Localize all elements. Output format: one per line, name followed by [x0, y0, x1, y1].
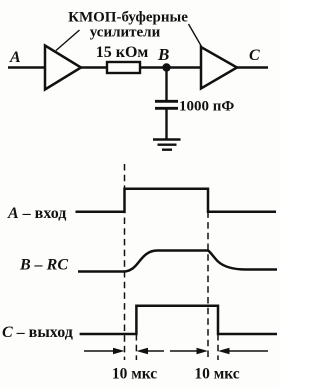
- svg-text:КМОП-буферные: КМОП-буферные: [68, 10, 188, 26]
- dimension arrow right pair (10 мкс): [170, 348, 268, 354]
- dashed timing line below C fall: [217, 334, 219, 360]
- waveform C output pulse: [80, 306, 277, 334]
- op-amp buffer U1: [45, 46, 81, 90]
- svg-text:C: C: [249, 47, 260, 64]
- svg-text:A – вход: A – вход: [7, 205, 66, 222]
- svg-text:1000 пФ: 1000 пФ: [179, 99, 234, 115]
- wire: input A to buffer U1: [8, 66, 45, 68]
- leader line to buffer U2: [189, 24, 202, 47]
- wire: resistor R1 to buffer U2 through node B: [140, 66, 201, 68]
- leader line to buffer U1: [56, 30, 80, 51]
- ground: [153, 140, 181, 150]
- wire: U2 output C: [237, 66, 268, 68]
- svg-text:B: B: [157, 45, 169, 64]
- wire: U1 output to resistor R1: [81, 66, 107, 68]
- waveform B RC charge/discharge curve: [78, 251, 277, 272]
- svg-text:усилители: усилители: [90, 25, 161, 41]
- svg-text:15 кОм: 15 кОм: [96, 44, 149, 61]
- dashed timing line below C rise: [135, 334, 137, 360]
- svg-text:10 мкс: 10 мкс: [194, 366, 239, 383]
- dimension arrow left pair (10 мкс): [84, 348, 164, 354]
- wire: node B down to capacitor C1: [165, 68, 167, 101]
- node B junction dot: [162, 63, 170, 71]
- resistor R1: [107, 62, 140, 73]
- waveform A input pulse: [76, 189, 277, 212]
- svg-text:A: A: [9, 49, 21, 66]
- op-amp buffer U2: [201, 47, 237, 89]
- svg-text:10 мкс: 10 мкс: [112, 366, 157, 383]
- label: title КМОП-буферные усилители: [68, 10, 188, 41]
- svg-text:C – выход: C – выход: [2, 324, 73, 341]
- svg-text:B – RC: B – RC: [19, 257, 68, 274]
- wire: capacitor C1 to ground: [165, 108, 167, 139]
- capacitor C1 bottom plate: [155, 107, 178, 110]
- capacitor C1 top plate: [155, 100, 178, 103]
- dashed timing line at A fall: [207, 190, 209, 360]
- dashed timing line at A rise: [124, 164, 126, 360]
